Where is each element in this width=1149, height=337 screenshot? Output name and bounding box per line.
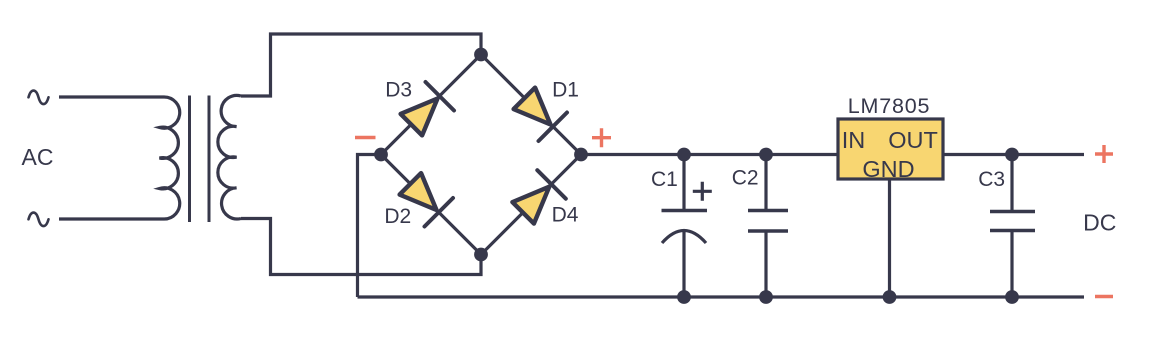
diode D3 — [401, 82, 454, 135]
junction: C3 bottom — [1005, 290, 1019, 304]
label D3 — [385, 79, 412, 102]
wire: bridge diamond edges — [381, 55, 581, 255]
wire: AC top terminal to transformer primary — [59, 95, 164, 98]
diode D2 — [400, 173, 453, 226]
wire: AC bottom terminal to transformer primary — [59, 217, 164, 220]
regulator U1 LM7805 body — [838, 119, 943, 179]
pin label IN — [842, 127, 866, 153]
junction: C2 bottom — [759, 290, 773, 304]
wire: secondary bottom to bridge bottom node — [241, 219, 481, 275]
capacitor C2 wire bottom — [764, 233, 767, 298]
svg-text:AC: AC — [22, 144, 54, 170]
junction: C2 top — [759, 148, 773, 162]
svg-text:C3: C3 — [978, 168, 1005, 191]
label LM7805 — [848, 94, 931, 118]
label D2 — [384, 205, 411, 228]
diode D4 — [512, 170, 565, 223]
AC sine symbol bottom — [29, 213, 49, 227]
label C1 — [651, 168, 678, 191]
capacitor C3 wire top — [1010, 155, 1013, 211]
svg-text:C1: C1 — [651, 168, 678, 191]
minus sign at DC output — [1095, 295, 1113, 298]
junction: bridge right node — [574, 148, 588, 162]
junction: bridge bottom node — [474, 248, 488, 262]
AC sine symbol top — [29, 91, 49, 105]
minus sign at bridge left node — [355, 136, 376, 139]
capacitor C1 wire top — [682, 155, 685, 210]
capacitor C1 polarity plus — [693, 182, 712, 201]
transformer primary winding — [160, 97, 180, 219]
junction: GND bottom — [883, 290, 897, 304]
svg-text:GND: GND — [862, 156, 914, 182]
svg-text:C2: C2 — [732, 167, 759, 190]
wire: bottom rail (negative) — [358, 295, 1085, 298]
junction: C3 top — [1005, 148, 1019, 162]
svg-text:LM7805: LM7805 — [848, 94, 931, 118]
junction: C1 top — [677, 148, 691, 162]
svg-text:D1: D1 — [552, 79, 579, 102]
svg-text:D3: D3 — [385, 79, 412, 102]
svg-text:D4: D4 — [552, 204, 579, 227]
capacitor C3 wire bottom — [1010, 232, 1013, 297]
svg-text:DC: DC — [1083, 210, 1116, 236]
wire: regulator GND pin to bottom rail — [888, 179, 891, 297]
svg-text:D2: D2 — [384, 205, 411, 228]
capacitor C3 — [990, 212, 1035, 231]
AC label — [22, 144, 54, 170]
wire: top rail from bridge plus node to regulator IN — [581, 153, 838, 156]
diode D1 — [514, 88, 567, 141]
transformer core — [190, 96, 210, 223]
junction: C1 bottom — [677, 290, 691, 304]
plus sign at bridge right node — [592, 128, 611, 147]
junction: bridge left node — [374, 148, 388, 162]
label D1 — [552, 79, 579, 102]
wire: top rail from regulator OUT to DC plus — [943, 153, 1084, 156]
label D4 — [552, 204, 579, 227]
pin label GND — [862, 156, 914, 182]
wire: bridge minus node down to bottom rail — [358, 155, 382, 298]
capacitor C2 wire top — [764, 155, 767, 210]
label DC — [1083, 210, 1116, 236]
capacitor C1 wire bottom — [682, 232, 685, 298]
capacitor C1 — [662, 211, 708, 244]
svg-text:OUT: OUT — [888, 127, 938, 153]
plus sign at DC output — [1095, 145, 1113, 163]
wire: secondary top to bridge top node — [241, 34, 481, 96]
label C3 — [978, 168, 1005, 191]
junction: bridge top node — [474, 48, 488, 62]
svg-text:IN: IN — [842, 127, 866, 153]
pin label OUT — [888, 127, 938, 153]
transformer secondary winding — [218, 95, 241, 219]
capacitor C2 — [748, 211, 788, 232]
label C2 — [732, 167, 759, 190]
